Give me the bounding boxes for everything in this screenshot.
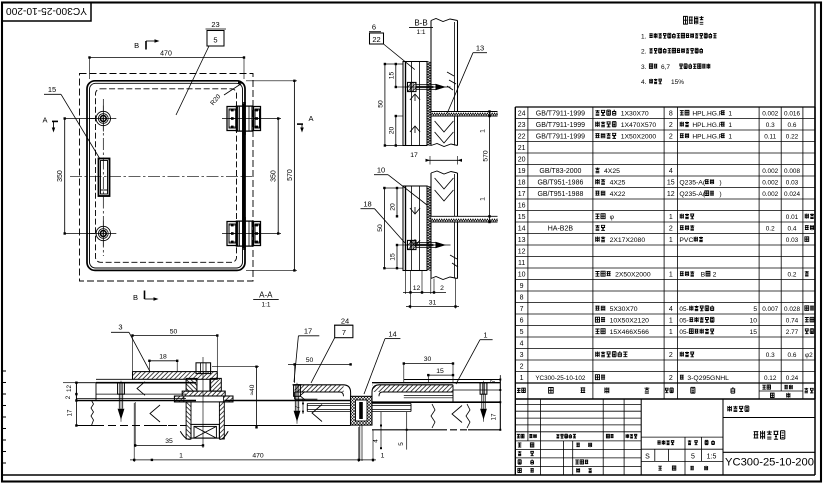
svg-text:4X25: 4X25 — [610, 179, 626, 186]
svg-text:GB/T7911-1999: GB/T7911-1999 — [536, 122, 585, 129]
svg-text:): ) — [719, 179, 721, 186]
svg-text:8: 8 — [669, 110, 673, 117]
svg-text:0.3: 0.3 — [766, 352, 775, 359]
svg-text:5: 5 — [520, 329, 524, 336]
svg-text:HPL.HG.F: HPL.HG.F — [692, 110, 722, 117]
A-A: strip2 rounded left end — [372, 385, 453, 397]
svg-text:16: 16 — [518, 202, 526, 209]
bolt top-left — [96, 111, 110, 125]
svg-text:A-A: A-A — [259, 291, 273, 300]
svg-text:1:1: 1:1 — [416, 29, 425, 36]
svg-text:1.: 1. — [641, 34, 647, 41]
svg-text:15%: 15% — [671, 79, 684, 86]
svg-text:2: 2 — [713, 271, 717, 278]
svg-text:S: S — [645, 453, 650, 460]
svg-text:50: 50 — [377, 224, 384, 232]
svg-text:17: 17 — [491, 413, 498, 421]
dim 350 right (hinge span) — [277, 119, 279, 234]
svg-text:50: 50 — [306, 357, 314, 364]
svg-text:15: 15 — [518, 214, 526, 221]
main view: inner dashed rounded rect — [96, 89, 237, 262]
svg-text:0.002: 0.002 — [762, 110, 778, 117]
B-B bottom: cover strip part 10 area — [403, 186, 427, 271]
svg-text:350: 350 — [271, 170, 278, 182]
svg-text:470: 470 — [252, 452, 264, 459]
BOM parts table grid — [514, 107, 516, 399]
svg-text:50: 50 — [170, 329, 178, 336]
svg-text:5: 5 — [398, 442, 405, 446]
svg-text:13: 13 — [476, 44, 484, 53]
title strip box top-left (rotated drawing number) — [2, 3, 91, 22]
svg-text:2: 2 — [669, 352, 673, 359]
svg-text:0.008: 0.008 — [784, 168, 800, 175]
sheet count row — [658, 466, 662, 470]
svg-text:1: 1 — [728, 122, 732, 129]
svg-text:20: 20 — [390, 203, 397, 211]
svg-text:HA-B2B: HA-B2B — [548, 225, 574, 232]
svg-text:12: 12 — [413, 285, 421, 292]
svg-text:0.024: 0.024 — [784, 191, 800, 198]
svg-text:0.6: 0.6 — [788, 352, 797, 359]
sheet inner border bottom — [2, 474, 815, 476]
svg-text:1X50X2000: 1X50X2000 — [621, 133, 657, 140]
svg-text:0.24: 0.24 — [786, 375, 799, 382]
svg-text:≈40: ≈40 — [249, 384, 256, 395]
A-A: wall band under mechanism dashed bottom — [150, 425, 186, 427]
main view: door frame second line — [90, 83, 243, 268]
B-B bottom: wall column below — [430, 222, 432, 279]
svg-text:1X470X570: 1X470X570 — [621, 122, 657, 129]
svg-text:A: A — [308, 114, 313, 123]
B-B bottom: screw part 18 — [408, 240, 417, 249]
svg-text:PVC: PVC — [679, 237, 693, 244]
title block revision header texts — [517, 434, 524, 438]
svg-text:HPL.HG.F: HPL.HG.F — [692, 122, 722, 129]
svg-text:05-: 05- — [679, 306, 688, 313]
B-B top: screw part 6 — [408, 82, 417, 91]
svg-text:15X466X566: 15X466X566 — [610, 329, 650, 336]
left border fold ticks — [2, 370, 6, 372]
svg-text:0.74: 0.74 — [786, 317, 799, 324]
svg-text:0.016: 0.016 — [784, 110, 800, 117]
B-B bottom: dims 50/20/15 — [383, 188, 385, 268]
svg-text:7: 7 — [520, 306, 524, 313]
A-A: seam hinge block part 14 — [351, 396, 373, 425]
svg-text:30: 30 — [424, 356, 432, 363]
svg-text:4X25: 4X25 — [604, 168, 620, 175]
svg-text:21: 21 — [518, 145, 526, 152]
svg-text:1: 1 — [669, 271, 673, 278]
A-A: dims 4 and 5 below seam — [380, 412, 382, 448]
svg-text:20: 20 — [388, 127, 395, 135]
svg-text:4: 4 — [520, 340, 524, 347]
svg-text:1: 1 — [669, 214, 673, 221]
B-B bottom extension lines — [405, 271, 407, 295]
svg-text:15: 15 — [388, 72, 395, 80]
svg-text:Q235-A(: Q235-A( — [679, 179, 705, 186]
svg-text:2: 2 — [65, 395, 72, 399]
svg-text:2X17X2080: 2X17X2080 — [610, 237, 646, 244]
svg-text:): ) — [719, 191, 721, 198]
svg-text:15: 15 — [667, 179, 675, 186]
svg-text:GB/T7911-1999: GB/T7911-1999 — [536, 110, 585, 117]
A-A: dim 35 — [135, 444, 203, 446]
svg-text:7: 7 — [342, 328, 346, 337]
signature row labels — [518, 443, 522, 447]
svg-text:470: 470 — [160, 51, 172, 58]
svg-text:2X50X2000: 2X50X2000 — [615, 271, 651, 278]
svg-text:3: 3 — [520, 352, 524, 359]
drawing title (inspection door assembly) — [754, 431, 785, 440]
svg-text:11: 11 — [518, 260, 525, 267]
svg-text:13: 13 — [518, 237, 526, 244]
A-A: top dim 50 — [133, 335, 218, 337]
svg-text:0.6: 0.6 — [788, 122, 797, 129]
A-A: right panel with screw — [404, 379, 501, 381]
B-B top: door edge chevron piece — [430, 116, 432, 146]
svg-text:17: 17 — [67, 409, 74, 417]
svg-text:3: 3 — [118, 323, 122, 332]
A-A: cover plate strip (part 3 area, hatched) — [133, 372, 218, 380]
svg-text:1: 1 — [728, 133, 732, 140]
svg-text:0.03: 0.03 — [786, 237, 799, 244]
A-A: wall band middle to seam — [224, 400, 350, 402]
svg-text:6: 6 — [520, 317, 524, 324]
svg-text:2: 2 — [669, 375, 673, 382]
svg-text:0.2: 0.2 — [766, 225, 775, 232]
A-A: seal under strip1 — [294, 392, 296, 399]
svg-text:570: 570 — [483, 150, 490, 162]
svg-text:1: 1 — [669, 329, 673, 336]
svg-text:1: 1 — [728, 110, 732, 117]
handle part 15 — [99, 159, 110, 197]
svg-text:31: 31 — [429, 300, 437, 307]
company name cell — [727, 406, 748, 412]
svg-text:YC300-25-10-102: YC300-25-10-102 — [535, 375, 586, 382]
svg-text:10: 10 — [518, 271, 526, 278]
svg-text:0.002: 0.002 — [762, 179, 778, 186]
svg-text:15: 15 — [48, 85, 56, 94]
svg-text:23: 23 — [211, 20, 219, 29]
main view: horizontal centerline — [70, 176, 252, 178]
svg-text:350: 350 — [57, 170, 64, 182]
svg-text:24: 24 — [518, 110, 526, 117]
svg-text:0.2: 0.2 — [788, 271, 797, 278]
svg-text:18: 18 — [363, 200, 371, 209]
svg-text:YC300-25-10-200: YC300-25-10-200 — [6, 5, 87, 16]
hatch strip1 — [295, 385, 344, 392]
svg-text:4.: 4. — [641, 79, 647, 86]
svg-text:5: 5 — [691, 453, 695, 460]
A-A: dim 50 (seal strip left) — [288, 363, 351, 365]
B-B bottom: break dashes — [450, 255, 457, 259]
svg-text:4X22: 4X22 — [610, 191, 626, 198]
svg-text:2: 2 — [669, 122, 673, 129]
B-B right dim 1/570/1 — [489, 112, 491, 223]
A-A: seam centerline down — [359, 425, 361, 461]
svg-text:0.002: 0.002 — [762, 168, 778, 175]
svg-text:3.: 3. — [641, 64, 647, 71]
svg-text:22: 22 — [518, 133, 526, 140]
B-B label 22 boxed — [370, 33, 384, 44]
door heavy right edge — [242, 104, 245, 248]
B-B top: dims 50/15/20 — [384, 64, 386, 146]
svg-text:15: 15 — [750, 329, 758, 336]
B-B top: break dashes in wall — [447, 72, 454, 76]
svg-text:A: A — [42, 116, 47, 125]
A-A: dim 18 — [149, 360, 177, 362]
svg-text:1:1: 1:1 — [261, 302, 270, 309]
svg-text:0.01: 0.01 — [786, 214, 799, 221]
svg-text:17: 17 — [410, 152, 418, 159]
svg-text:12: 12 — [518, 248, 526, 255]
svg-text:HPL.HG.F: HPL.HG.F — [692, 133, 722, 140]
A-A: dashed band breaks — [256, 425, 296, 427]
main view: vertical centerline thru bolts/handle — [102, 99, 104, 256]
svg-text:19: 19 — [518, 168, 526, 175]
svg-text:2: 2 — [440, 285, 444, 292]
svg-text:17: 17 — [518, 191, 526, 198]
svg-text:24: 24 — [341, 317, 349, 326]
A-A: left end block — [76, 383, 96, 401]
svg-text:0.007: 0.007 — [762, 306, 778, 313]
A-A: hinge leaves — [307, 403, 350, 405]
A-A: small dim 7 near hinge leaf — [302, 399, 304, 414]
svg-text:1: 1 — [669, 317, 673, 324]
svg-text:B: B — [133, 293, 138, 302]
A-A: dim 15 — [428, 374, 453, 376]
svg-text:1: 1 — [669, 237, 673, 244]
svg-text:10: 10 — [377, 166, 385, 175]
B-B bottom: seal zigzag column — [427, 186, 430, 271]
svg-text:3-Q295GNHL: 3-Q295GNHL — [687, 375, 729, 382]
svg-text:0.4: 0.4 — [788, 225, 797, 232]
A-A: chevron in left panel — [137, 382, 145, 396]
A-A: dim 30 — [404, 363, 453, 365]
B-B top: wall column above — [431, 19, 458, 22]
svg-text:8: 8 — [520, 294, 524, 301]
B-B top: seal flange (part 13) — [431, 111, 498, 113]
svg-text:1: 1 — [480, 129, 487, 133]
B-B top: seal zigzag column — [427, 62, 430, 146]
svg-text:5: 5 — [753, 306, 757, 313]
svg-text:10: 10 — [750, 317, 758, 324]
svg-text:14: 14 — [388, 330, 396, 339]
svg-text:1: 1 — [483, 331, 487, 340]
svg-text:GB/T951-1988: GB/T951-1988 — [537, 191, 583, 198]
A-A: hex bolt on top — [196, 363, 211, 374]
svg-text:15: 15 — [436, 368, 444, 375]
svg-text:9: 9 — [520, 283, 524, 290]
sheet inner border right — [814, 3, 816, 476]
svg-text:Q235-A(: Q235-A( — [679, 191, 705, 198]
svg-text:0.002: 0.002 — [762, 191, 778, 198]
svg-text:2: 2 — [669, 225, 673, 232]
svg-text:B: B — [701, 271, 706, 278]
BOM header row — [517, 388, 525, 392]
svg-text:1: 1 — [179, 452, 183, 459]
B-B bottom dim 31 — [406, 306, 459, 308]
svg-text:0.12: 0.12 — [764, 375, 777, 382]
A-A: screw left panel — [117, 382, 126, 384]
main view: door outer rounded rect — [87, 81, 245, 271]
B-B bottom: wall column piece — [431, 171, 458, 174]
svg-text:7: 7 — [490, 379, 497, 383]
B-B bottom: seal flange — [431, 215, 498, 217]
svg-text:φ: φ — [610, 214, 615, 221]
hinge assemblies at door right edge — [227, 107, 238, 131]
svg-text:0.03: 0.03 — [786, 179, 799, 186]
A-A: lock mechanism center — [186, 378, 197, 391]
svg-text:0.028: 0.028 — [784, 306, 800, 313]
A-A: right edge dims 7 / 17 — [499, 375, 501, 390]
svg-text:6: 6 — [372, 23, 376, 32]
A-A: wall band left part — [76, 425, 96, 427]
A-A: screw mid (under strip1 left) — [293, 384, 302, 386]
A-A: dim ~40 right of mechanism — [256, 367, 258, 428]
svg-text:B: B — [134, 41, 139, 50]
svg-text:2: 2 — [520, 363, 524, 370]
svg-text:2.: 2. — [641, 49, 647, 56]
B-B bottom dims 12/2 — [403, 291, 446, 293]
main view: dashed opening outline — [80, 74, 254, 282]
svg-text:18: 18 — [518, 179, 526, 186]
svg-text:50: 50 — [378, 100, 385, 108]
svg-text:2: 2 — [669, 133, 673, 140]
svg-text:12: 12 — [66, 385, 73, 393]
svg-text:0.3: 0.3 — [766, 122, 775, 129]
svg-text:14: 14 — [518, 225, 526, 232]
svg-text:1: 1 — [381, 452, 385, 459]
svg-text:0.22: 0.22 — [786, 133, 799, 140]
svg-text:35: 35 — [165, 438, 173, 445]
svg-text:0.11: 0.11 — [764, 133, 776, 140]
tech requirements title — [684, 16, 704, 24]
dim 570 right — [293, 81, 295, 271]
dim 350 left — [64, 119, 66, 234]
svg-text:10X50X2120: 10X50X2120 — [610, 317, 650, 324]
svg-text:4: 4 — [373, 439, 380, 443]
A-A: left edge dims 12/2/17 — [75, 383, 77, 426]
svg-text:17: 17 — [304, 327, 312, 336]
svg-text:φ2: φ2 — [805, 352, 813, 359]
title block grid — [514, 399, 516, 475]
svg-text:GB/T7911-1999: GB/T7911-1999 — [536, 133, 585, 140]
svg-text:4: 4 — [669, 306, 673, 313]
A-A: strips with rounded ends (seal covers) — [295, 385, 351, 397]
svg-text:12: 12 — [667, 191, 675, 198]
A-A: wall band right part — [372, 401, 500, 403]
svg-text:05-: 05- — [679, 317, 688, 324]
svg-text:B-B: B-B — [414, 19, 427, 28]
B-B top: cover strip part 22 — [403, 62, 427, 146]
svg-text:1: 1 — [480, 197, 487, 201]
A-A: left panel layers — [96, 382, 196, 384]
A-A: bottom dim line 1/470/1 — [130, 459, 376, 461]
svg-text:4: 4 — [669, 168, 673, 175]
svg-text:20: 20 — [518, 156, 526, 163]
stage mark / weight / scale labels — [657, 440, 674, 444]
svg-text:570: 570 — [287, 169, 294, 181]
svg-text:5: 5 — [213, 36, 217, 45]
dim 470 top — [90, 57, 245, 59]
svg-text:15: 15 — [390, 253, 397, 261]
A-A: mechanism housing below — [186, 402, 191, 439]
svg-text:22: 22 — [372, 35, 380, 44]
svg-text:GB/T951-1986: GB/T951-1986 — [537, 179, 583, 186]
svg-text:YC300-25-10-200: YC300-25-10-200 — [725, 457, 814, 469]
A-A: mechanism centerline — [202, 357, 204, 448]
svg-text:1: 1 — [520, 375, 524, 382]
svg-text:2.77: 2.77 — [786, 329, 799, 336]
svg-text:23: 23 — [518, 122, 526, 129]
svg-text:18: 18 — [159, 353, 167, 360]
svg-text:GB/T83-2000: GB/T83-2000 — [539, 168, 581, 175]
svg-text:1X30X70: 1X30X70 — [621, 110, 649, 117]
svg-text:1:5: 1:5 — [707, 453, 717, 460]
svg-text:05-: 05- — [679, 329, 688, 336]
svg-text:6,7: 6,7 — [661, 64, 670, 71]
svg-text:5X30X70: 5X30X70 — [610, 306, 638, 313]
